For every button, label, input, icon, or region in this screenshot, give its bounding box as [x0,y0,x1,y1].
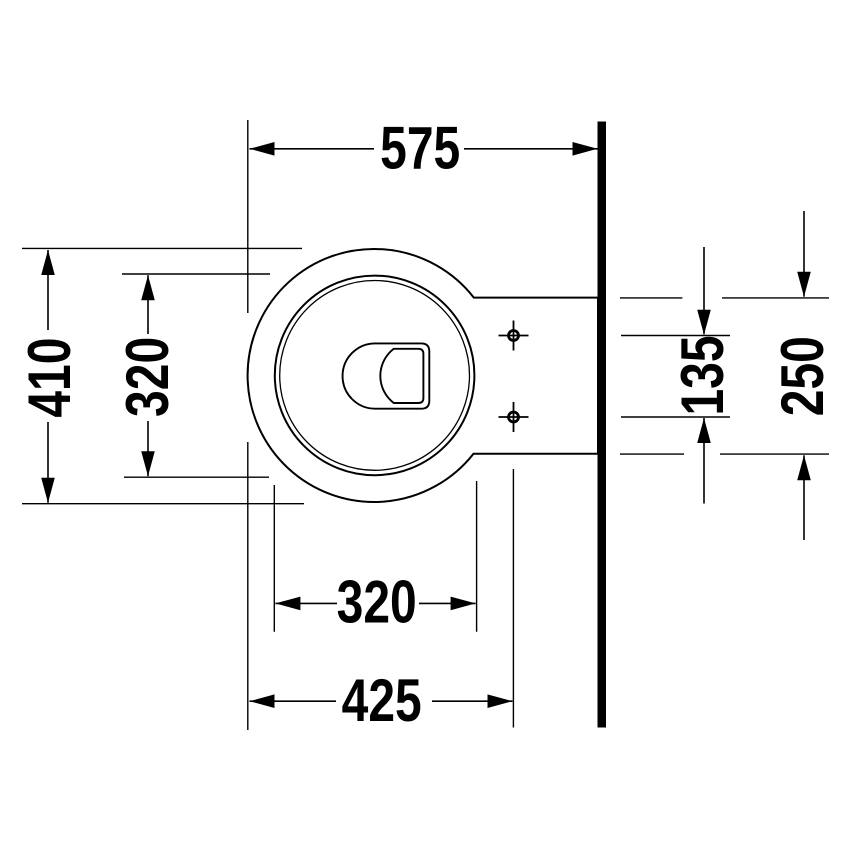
arrow 410 bottom [41,478,55,503]
dimension 320 bottom line right segment [419,602,476,604]
dimension 410 line top segment [47,250,49,330]
dimension 425 line left segment [250,700,337,702]
mounting hole 2 cross vertical [513,402,515,432]
extension line y=249 (top of bowl) [22,247,302,249]
arrow 320 left top [141,275,155,300]
arrow 410 top [41,250,55,275]
mounting hole 2 cross horizontal [499,416,529,418]
arrow 320 bottom right [451,597,476,611]
extension line y=335 hole1 axis right of wall [621,335,730,337]
arrow 575 left [250,142,275,156]
svg-text:250: 250 [769,336,836,416]
extension line y=417 hole2 axis right of wall [621,416,730,418]
extension line y=453.5 right of wall [620,453,684,455]
extension line x=274 (inner rim left) [273,485,275,632]
svg-text:425: 425 [342,667,422,734]
mounting hole 1 cross vertical [513,321,515,351]
dimension 575 line right segment [464,148,598,150]
arrow 320 bottom left [275,597,300,611]
dimension 320 left line bottom segment [147,421,149,476]
arrow 425 left [250,694,275,708]
extension line y=275 (inner rim top) [122,273,270,275]
dimension 250 stem top [803,211,805,297]
extension line y=454 right of wall segment b [720,453,829,455]
mounting hole 1 circle [509,331,519,341]
svg-text:320: 320 [114,337,181,417]
arrow 320 left bottom [141,451,155,476]
flush outlet outer shape [343,343,430,408]
inner rim circle thin [280,281,470,471]
dimension 135 stem bottom [703,418,705,504]
extension line y=476 (inner rim bottom) [124,476,269,478]
arrow 250 top [797,272,811,297]
dimension 575 line left segment [250,148,375,150]
extension line x=248 (front of bowl, top segment) [247,120,249,313]
dimension 425 line right segment [432,700,513,702]
extension line y=297.5 right of wall segment b [722,297,829,299]
arrow 425 right [488,694,513,708]
svg-text:410: 410 [16,338,83,418]
svg-text:135: 135 [669,335,736,415]
inner rim circle thick [275,276,475,476]
mounting hole 2 circle [509,412,519,422]
svg-text:320: 320 [337,568,417,635]
dimension 320 bottom line left segment [275,602,337,604]
extension line y=502 (bottom of bowl) [22,503,304,505]
dimension 320 left line top segment [147,275,149,334]
wall [598,122,607,728]
dimension 250 stem bottom [803,455,805,540]
extension line y=297.5 right of wall segment a [620,297,682,299]
arrow 135 bottom [697,418,711,443]
flush outlet inner shape [380,349,423,403]
arrow 575 right [573,142,598,156]
arrow 250 bottom [797,455,811,480]
svg-text:575: 575 [380,114,460,181]
dimension 410 line bottom segment [47,422,49,503]
mounting hole 1 cross horizontal [499,335,529,337]
extension line x=477 (inner rim right) [476,481,478,632]
bowl outer contour with mounting plate [248,249,598,502]
extension line x=248 (front of bowl, bottom segment) [247,442,249,730]
extension line x=513 (hole axis vertical) [512,469,514,728]
dimension 135 stem top [703,247,705,334]
arrow 135 top [697,310,711,335]
